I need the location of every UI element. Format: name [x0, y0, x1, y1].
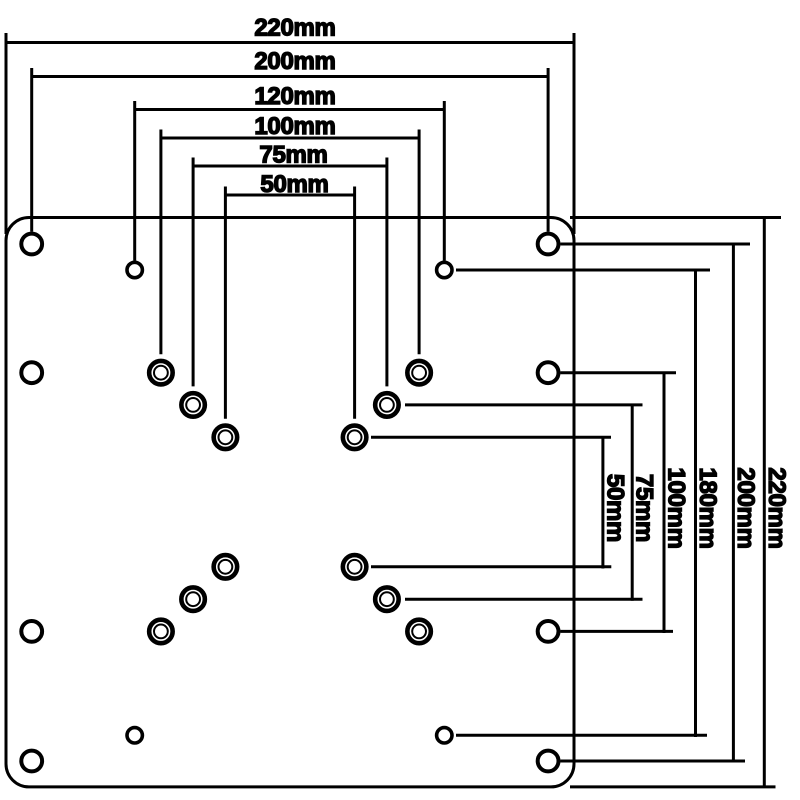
svg-text:200mm: 200mm [732, 467, 759, 548]
dimension 220mm top: dimension line [6, 41, 574, 44]
dimension 50mm right: bottom extension line [371, 565, 611, 568]
dimension 120mm top: left extension line [133, 101, 136, 261]
svg-text:50mm: 50mm [601, 474, 628, 542]
mid edge hole left lower [21, 621, 42, 642]
grommet VESA50 bottom-right [343, 555, 367, 579]
dimension 50mm right: top extension line [371, 436, 611, 439]
dimension 75mm top: dimension line [193, 165, 387, 168]
dimension 220mm top: left extension line [5, 33, 8, 234]
dimension 50mm right: dimension line [601, 437, 604, 568]
dimension 220mm right: dimension line [763, 218, 766, 788]
corner hole bottom-left (200x200) [21, 751, 42, 772]
dimension 200mm top: left extension line [30, 68, 33, 232]
dimension 75mm right: dimension line [631, 405, 634, 601]
dimension 100mm right: dimension line [663, 373, 666, 633]
mid edge hole right upper [538, 362, 559, 383]
dimension 200mm right: bottom extension line [560, 760, 745, 763]
dimension 200mm right: top extension line [560, 243, 750, 246]
svg-text:200mm: 200mm [254, 48, 335, 75]
grommet VESA50 top-right [343, 426, 367, 450]
dimension 75mm right: bottom extension line [405, 598, 643, 601]
grommet VESA100 bottom-right [407, 620, 431, 644]
dimension 200mm top: right extension line [547, 68, 550, 232]
dimension 180mm right: bottom extension line [456, 734, 707, 737]
dimension 100mm right: top extension line [560, 371, 676, 374]
svg-text:180mm: 180mm [694, 467, 721, 548]
dimension 75mm top: left extension line [192, 158, 195, 387]
dimension 220mm top: right extension line [573, 33, 576, 234]
dimension 50mm top: dimension line [225, 194, 354, 197]
dimension 100mm top: right extension line [418, 130, 421, 355]
grommet VESA75 bottom-left [181, 587, 205, 611]
svg-text:100mm: 100mm [254, 113, 335, 140]
dimension 200mm top: dimension line [32, 75, 548, 78]
dimension 220mm right: top extension line [570, 216, 781, 219]
dimension 180mm right: top extension line [456, 269, 710, 272]
grommet VESA100 top-left [149, 361, 173, 385]
svg-text:120mm: 120mm [254, 83, 335, 110]
grommet VESA75 top-left [181, 393, 205, 417]
dimension 100mm right: bottom extension line [560, 630, 673, 633]
mid edge hole left upper [21, 362, 42, 383]
grommet VESA100 bottom-left [149, 620, 173, 644]
grommet VESA75 bottom-right [375, 587, 399, 611]
corner hole top-left (200x200) [21, 234, 42, 255]
grommet VESA50 top-left [214, 426, 238, 450]
small hole bottom-right (120x180) [437, 728, 452, 743]
corner hole top-right (200x200) [538, 234, 559, 255]
grommet VESA50 bottom-left [214, 555, 238, 579]
svg-text:100mm: 100mm [663, 467, 690, 548]
dimension 220mm right: bottom extension line [570, 785, 776, 788]
grommet VESA75 top-right [375, 393, 399, 417]
dimension 180mm right: dimension line [694, 270, 697, 737]
dimension 120mm top: dimension line [135, 108, 445, 111]
svg-text:75mm: 75mm [259, 142, 327, 169]
mid edge hole right lower [538, 621, 559, 642]
dimension 75mm top: right extension line [385, 158, 388, 387]
svg-text:75mm: 75mm [631, 474, 658, 542]
corner hole bottom-right (200x200) [538, 751, 559, 772]
svg-text:220mm: 220mm [254, 15, 335, 42]
svg-text:220mm: 220mm [763, 467, 790, 548]
dimension 75mm right: top extension line [405, 403, 643, 406]
small hole top-right (120x180) [437, 262, 452, 277]
grommet VESA100 top-right [407, 361, 431, 385]
dimension 200mm right: dimension line [732, 244, 735, 762]
dimension 100mm top: left extension line [159, 130, 162, 355]
dimension 50mm top: left extension line [224, 187, 227, 419]
small hole bottom-left (120x180) [127, 728, 142, 743]
dimension 120mm top: right extension line [443, 101, 446, 261]
dimension 100mm top: dimension line [161, 137, 419, 140]
dimension 50mm top: right extension line [353, 187, 356, 419]
plate outline [6, 218, 574, 787]
small hole top-left (120x180) [127, 262, 142, 277]
svg-text:50mm: 50mm [260, 171, 328, 198]
